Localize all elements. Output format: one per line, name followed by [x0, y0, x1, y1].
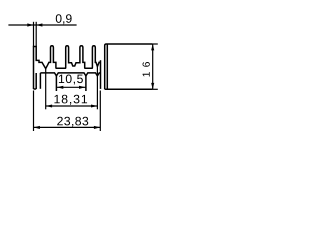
- slot left wall: [55, 76, 57, 91]
- dim 10,5 right arrow: [79, 86, 85, 89]
- left foot bottom: [34, 88, 37, 90]
- left foot inner vertical: [39, 73, 41, 89]
- dim 0,9 line: [8, 24, 76, 26]
- dim 16 top arrow: [151, 44, 154, 50]
- dim 0,9 right extension line: [35, 22, 37, 47]
- base web line with V notches: [40, 73, 100, 76]
- dim 0,9 left extension line: [33, 22, 35, 47]
- heatsink cross-section outline: [34, 46, 101, 89]
- label text 10,5: [59, 74, 83, 84]
- dim 0,9 right arrow: [36, 23, 42, 26]
- dim 16 bottom extension overshoot: [153, 88, 158, 90]
- label text 1: [143, 72, 150, 76]
- left wall inner lower vertical: [35, 73, 37, 89]
- label text 23,83: [57, 117, 88, 127]
- side view inner edge: [106, 44, 108, 89]
- dim 0,9 left arrow: [27, 23, 33, 26]
- dim 23,83 line: [34, 126, 101, 128]
- dim 23,83 right extension line: [99, 91, 101, 132]
- side view outline: [105, 44, 153, 89]
- right side view: [105, 44, 153, 89]
- dim 16 line on right edge of side view: [152, 44, 154, 89]
- profile right edge with top lip: [100, 60, 102, 89]
- label text 6: [143, 62, 150, 67]
- slot right wall: [85, 76, 87, 91]
- side view bottom edge: [105, 88, 153, 90]
- dim 16 top extension overshoot: [153, 43, 158, 45]
- dim 23,83 right arrow: [94, 126, 100, 129]
- dimension lines: [8, 22, 157, 131]
- dim 18,31 left arrow: [46, 104, 52, 107]
- dim 10,5 line: [56, 86, 86, 88]
- dim 18,31 right arrow: [91, 104, 97, 107]
- dim 18,31 line: [46, 105, 98, 107]
- dim 10,5 left arrow: [57, 86, 63, 89]
- label text 0,9: [56, 14, 72, 24]
- dim 16 bottom arrow: [151, 83, 154, 89]
- dim 23,83 left extension line: [33, 91, 35, 132]
- dim 23,83 left arrow: [34, 126, 40, 129]
- dim 18,31 right extension line (screw channel axis): [96, 67, 98, 110]
- label text 18,31: [54, 95, 87, 105]
- dim 18,31 left extension line (screw channel axis): [45, 69, 47, 110]
